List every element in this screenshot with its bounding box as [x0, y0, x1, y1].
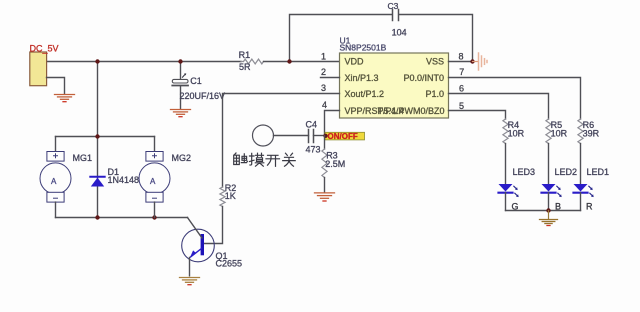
diode D1 [90, 177, 104, 187]
ground C1 [171, 110, 191, 117]
wire LED bottom rail [506, 210, 581, 212]
wire LED2 to LED rail [548, 193, 550, 211]
wire pin 2 stub [321, 77, 340, 79]
svg-text:104: 104 [392, 28, 407, 38]
svg-text:5: 5 [459, 101, 464, 111]
ground DC_5V [55, 95, 75, 102]
svg-text:MG2: MG2 [172, 153, 192, 163]
wire motor top rail [56, 136, 155, 138]
motor MG1 [40, 137, 71, 218]
wire +5V feed down to motor rails through D1 [97, 62, 99, 218]
resistor R2 [220, 187, 225, 207]
svg-text:1: 1 [321, 52, 326, 62]
svg-text:P1.0: P1.0 [425, 89, 444, 99]
svg-text:LED2: LED2 [555, 167, 578, 177]
svg-text:R: R [586, 202, 593, 212]
capacitor C1 top lead [180, 62, 182, 80]
svg-text:2: 2 [321, 67, 326, 77]
svg-text:MG1: MG1 [73, 153, 93, 163]
touch switch circle [253, 125, 274, 146]
node pin4/C4/R3 junction [323, 134, 327, 138]
svg-text:R1: R1 [239, 50, 251, 60]
wire LED ground stub [548, 211, 550, 219]
svg-text:1K: 1K [225, 191, 236, 201]
svg-text:10R: 10R [551, 129, 568, 139]
svg-text:7: 7 [459, 67, 464, 77]
svg-text:G: G [512, 202, 519, 212]
node rail/C1 junction [178, 59, 182, 63]
svg-text:C4: C4 [306, 120, 318, 130]
svg-text:6: 6 [459, 84, 464, 94]
svg-text:C1: C1 [190, 76, 202, 86]
resistor R1 [241, 59, 264, 64]
wire DC_5V pin 2 to ground [47, 78, 65, 94]
wire pin 8 VSS stub [449, 61, 473, 63]
svg-text:5R: 5R [239, 62, 251, 72]
svg-text:ON/OFF: ON/OFF [328, 132, 358, 141]
ground R3 [315, 193, 335, 201]
wire C1 to ground [180, 86, 182, 109]
svg-text:DC_5V: DC_5V [30, 43, 59, 53]
svg-text:VSS: VSS [426, 56, 444, 66]
svg-text:P0.0/INT0: P0.0/INT0 [403, 73, 444, 83]
wire R6 to LED1 [580, 144, 582, 185]
wire C3 to VSS corner [399, 15, 473, 62]
node rail/feed junction [95, 59, 99, 63]
node LED rail/ground junction [546, 208, 550, 212]
node top rail/D1 junction [95, 134, 99, 138]
wire node to R3 [324, 136, 326, 150]
resistor R4 [503, 119, 508, 144]
label 触摸开关 (touch switch) [234, 153, 296, 166]
wire R4 to LED3 [505, 144, 507, 185]
wire pin 5 to R4 [449, 111, 506, 120]
wire +5V rail from R1 to IC pin 1 (VDD) [264, 61, 340, 63]
ground LED rail [540, 220, 558, 226]
wire R3 to ground [324, 178, 326, 193]
ground VSS (rotated) [473, 53, 488, 70]
svg-text:LED1: LED1 [587, 167, 610, 177]
capacitor C4 plates [309, 130, 314, 143]
wire C4 to ON/OFF node [314, 135, 325, 137]
wire LED3 to LED rail [505, 193, 507, 211]
LED LED2 [542, 184, 562, 197]
svg-text:Xin/P1.3: Xin/P1.3 [345, 73, 379, 83]
svg-text:C3: C3 [388, 1, 399, 11]
wire LED1 to LED rail [580, 193, 582, 211]
node VSS/C3 junction [470, 59, 474, 63]
wire pin 6 to R5 [449, 94, 549, 120]
svg-text:4: 4 [322, 100, 327, 110]
capacitor C1 polarity mark [183, 74, 186, 77]
wire R2 to Q1 base [204, 207, 222, 244]
svg-text:C2655: C2655 [216, 259, 243, 269]
wire touch switch to C4 [274, 135, 309, 137]
svg-text:B: B [555, 202, 561, 212]
wire motor bottom rail to Q1 collector [56, 217, 188, 219]
capacitor C1 plates [172, 79, 188, 83]
motor MG2 [139, 137, 170, 218]
svg-text:473: 473 [306, 145, 321, 155]
svg-text:Xout/P1.2: Xout/P1.2 [345, 89, 385, 99]
ground Q1 [180, 278, 200, 285]
resistor R6 [578, 119, 583, 144]
wire +5V rail from connector to R1 [47, 61, 242, 63]
svg-text:A: A [150, 177, 156, 186]
op-amp/IC U1 SN8P2501B box [340, 53, 449, 118]
wire pin 4 down to ON/OFF node [325, 111, 340, 136]
svg-text:220UF/16V: 220UF/16V [180, 91, 226, 101]
transistor Q1 [182, 218, 215, 276]
svg-text:LED3: LED3 [513, 167, 536, 177]
LED LED1 [574, 184, 594, 197]
svg-text:1N4148: 1N4148 [108, 175, 140, 185]
svg-text:VDD: VDD [345, 56, 365, 66]
svg-text:3: 3 [321, 83, 326, 93]
wire C3 branch up from rail [290, 15, 393, 62]
node bottom rail/D1 junction [95, 215, 99, 219]
svg-text:10R: 10R [508, 129, 525, 139]
node rail/C3 branch junction [287, 59, 291, 63]
net label ON/OFF [325, 132, 365, 140]
svg-text:2.5M: 2.5M [325, 159, 345, 169]
svg-text:8: 8 [459, 51, 464, 61]
wire pin 3 to R2 column [223, 94, 340, 188]
svg-text:SN8P2501B: SN8P2501B [340, 42, 387, 52]
connector DC_5V [30, 52, 47, 86]
svg-text:A: A [51, 177, 57, 186]
wire R5 to LED2 [548, 144, 550, 185]
wire pin 7 to R6 [449, 78, 581, 120]
svg-text:39R: 39R [583, 129, 600, 139]
LED LED3 [499, 184, 519, 197]
node bottom rail/MG2 junction [152, 215, 156, 219]
capacitor C3 plates [393, 10, 399, 21]
resistor R5 [546, 119, 551, 144]
resistor R3 [322, 149, 327, 178]
svg-text:P5.4/PWM0/BZ0: P5.4/PWM0/BZ0 [377, 106, 444, 116]
